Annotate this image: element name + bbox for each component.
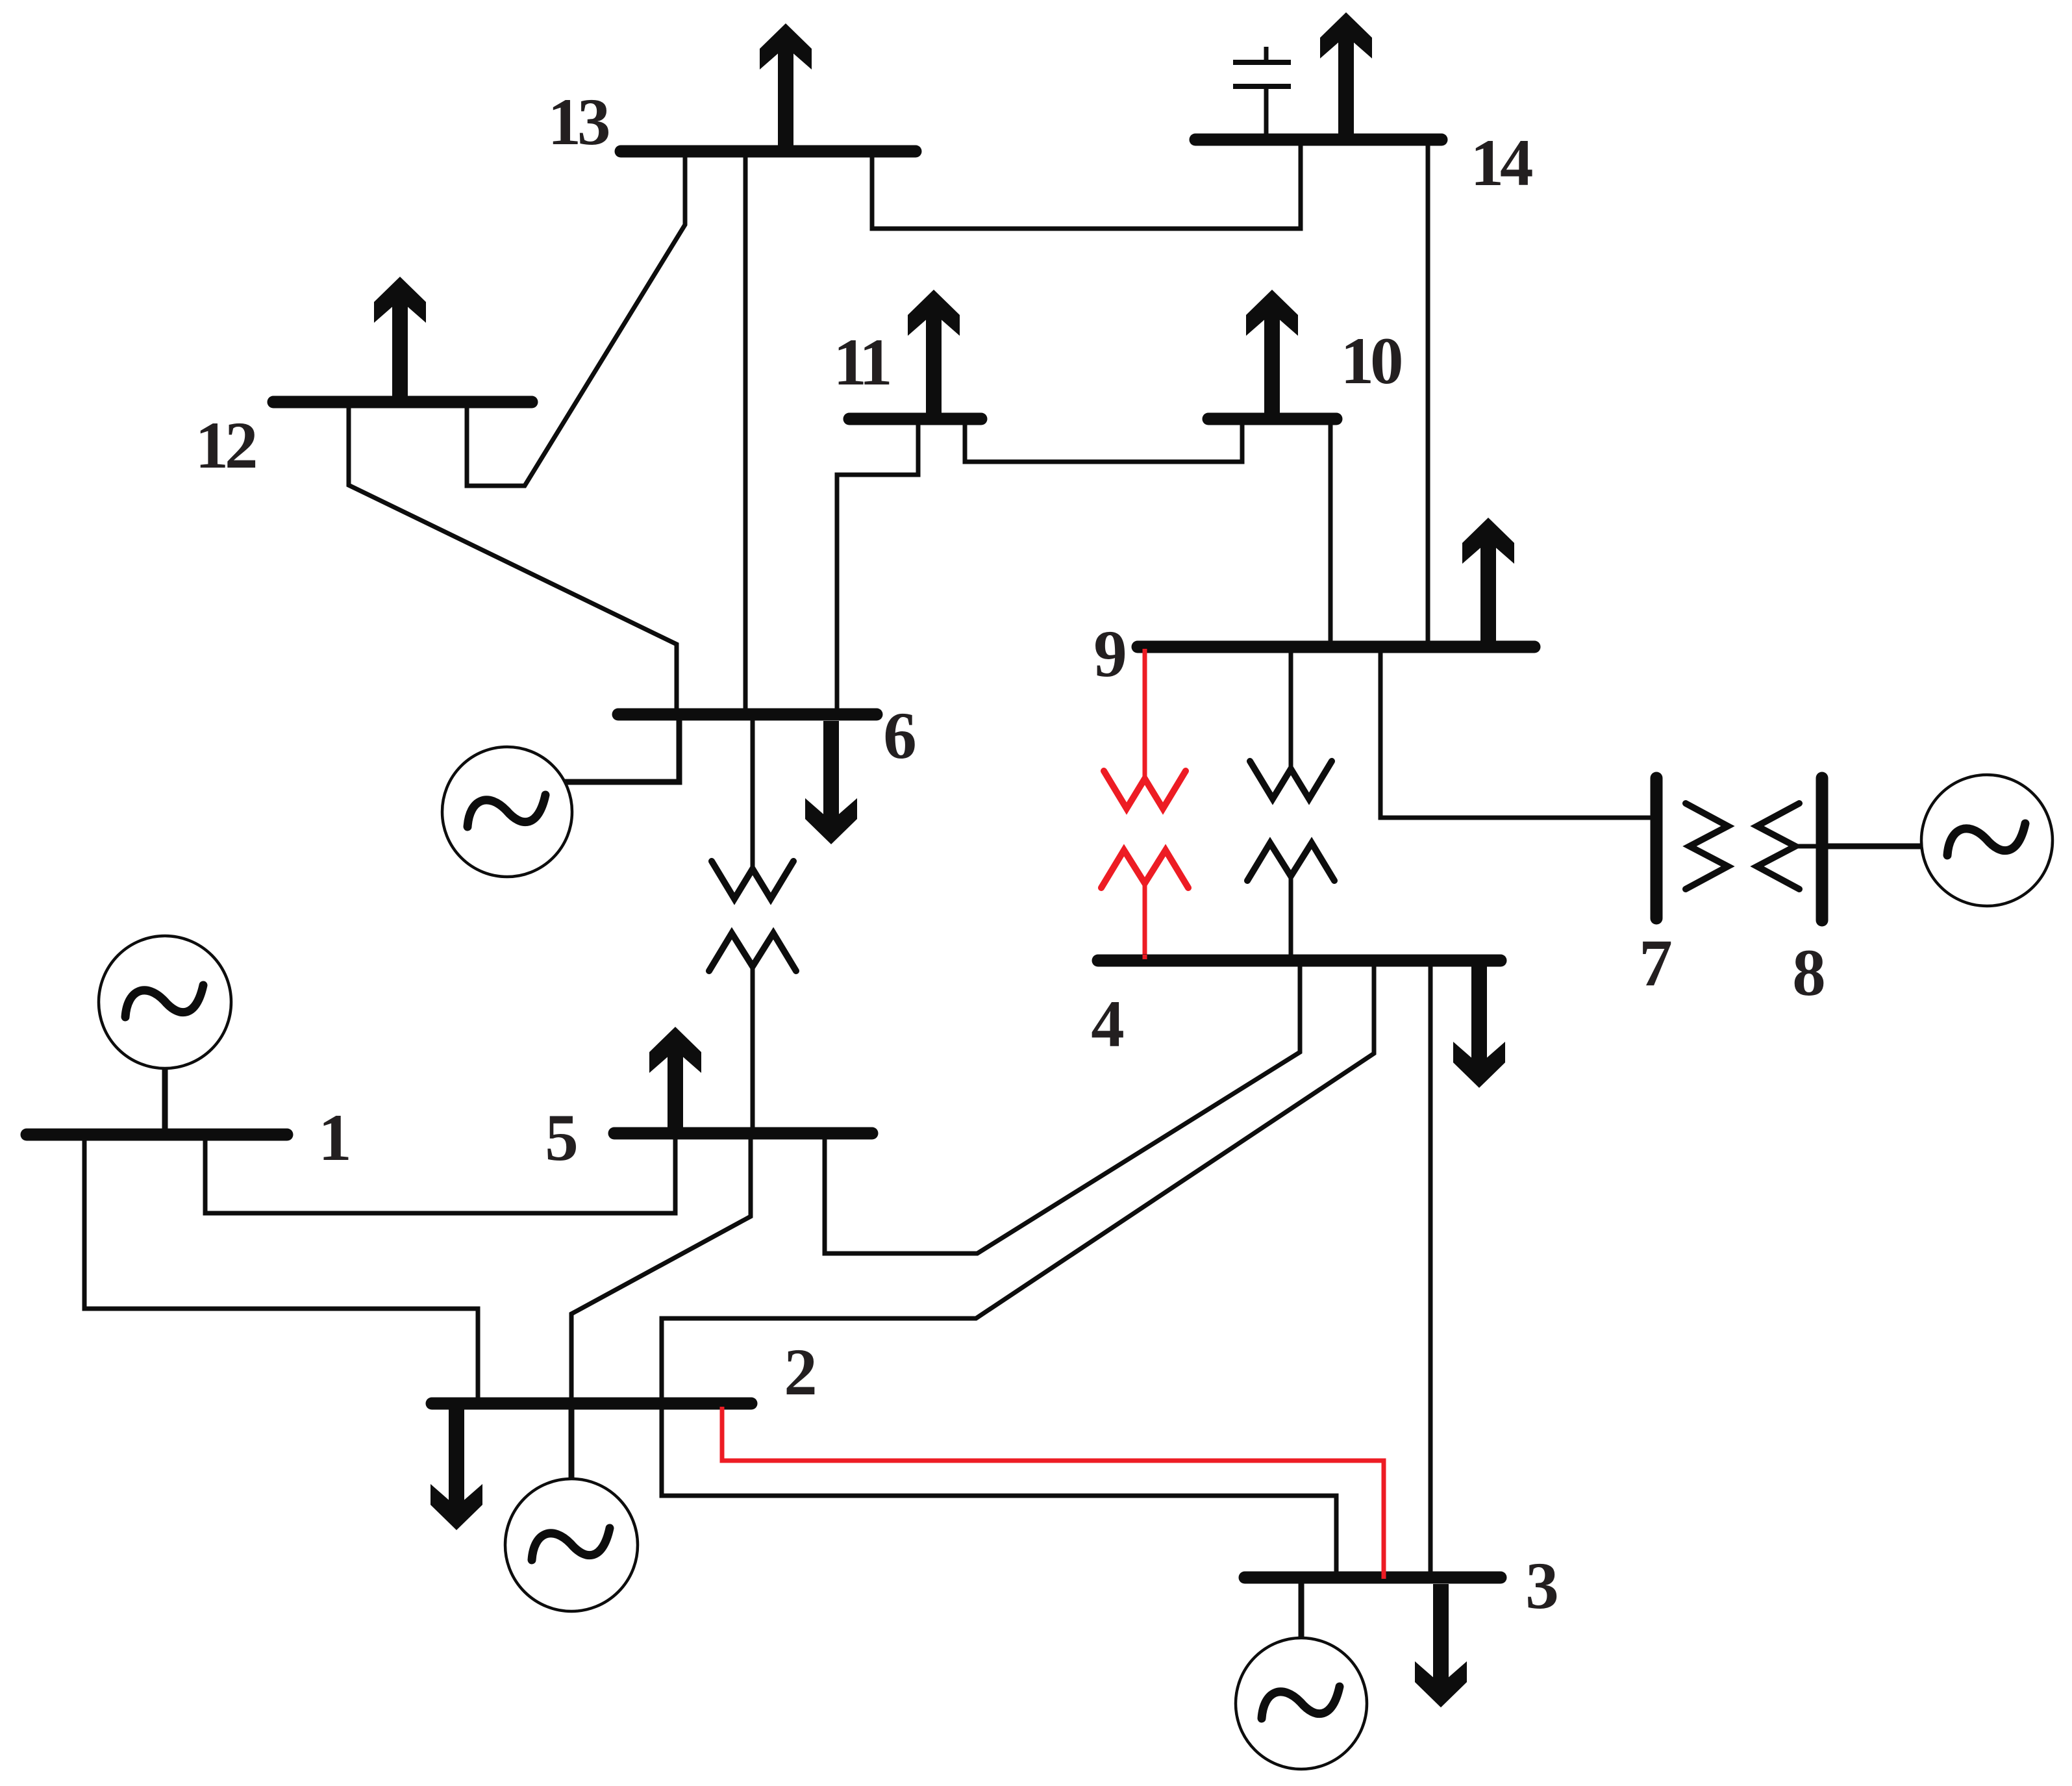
label bus 7 bbox=[1639, 926, 1673, 1000]
label bus 9 bbox=[1093, 617, 1127, 691]
wire line 2-4 bbox=[662, 961, 1374, 1403]
transformer T7-8 left winding bbox=[1686, 803, 1728, 889]
generator G8 lead bbox=[1822, 844, 1922, 849]
transformer T4-9 red lower winding bbox=[1101, 850, 1188, 957]
wire line 9-10 bbox=[1329, 419, 1333, 647]
label bus 2 bbox=[784, 1335, 818, 1409]
svg-text:10: 10 bbox=[1341, 324, 1402, 398]
bus 8 bbox=[1816, 778, 1829, 920]
svg-text:2: 2 bbox=[784, 1335, 818, 1409]
bus 1 bbox=[27, 1129, 287, 1141]
load arrow bus 10 bbox=[1246, 290, 1298, 413]
load arrow bus 9 bbox=[1462, 518, 1514, 641]
generator G8 bbox=[1921, 775, 2053, 906]
generator G2 bbox=[505, 1479, 638, 1611]
wire line 3-4 bbox=[1429, 961, 1433, 1578]
transformer T7-8 right winding bbox=[1757, 803, 1822, 889]
transformer T4-9 black upper winding bbox=[1250, 647, 1332, 799]
wire line 6-13 bbox=[743, 151, 748, 714]
label bus 11 bbox=[833, 325, 890, 399]
label bus 5 bbox=[545, 1101, 579, 1175]
transformer T4-9 red upper winding bbox=[1104, 649, 1186, 809]
svg-text:11: 11 bbox=[833, 325, 890, 399]
svg-text:12: 12 bbox=[195, 409, 256, 483]
svg-text:13: 13 bbox=[548, 85, 609, 159]
bus 11 bbox=[849, 413, 981, 425]
bus 10 bbox=[1208, 413, 1336, 425]
load arrow bus 2 bbox=[431, 1407, 482, 1530]
svg-text:3: 3 bbox=[1525, 1549, 1559, 1623]
bus 5 bbox=[614, 1127, 872, 1140]
svg-text:6: 6 bbox=[883, 699, 917, 773]
wire line 7-9 bbox=[1380, 647, 1656, 818]
bus 14 bbox=[1195, 134, 1442, 146]
wire line 13-14 bbox=[872, 140, 1301, 229]
bus 2 bbox=[432, 1398, 751, 1410]
load arrow bus 3 bbox=[1415, 1584, 1467, 1707]
generator G1 bbox=[99, 936, 231, 1068]
load arrow bus 6 bbox=[805, 721, 857, 844]
svg-text:9: 9 bbox=[1093, 617, 1127, 691]
generator G3 lead bbox=[1299, 1578, 1304, 1637]
svg-text:14: 14 bbox=[1471, 126, 1533, 200]
transformer T5-6 lower winding bbox=[709, 933, 796, 1133]
bus 4 bbox=[1098, 955, 1501, 967]
wire line 2-3 bbox=[662, 1403, 1336, 1578]
load arrow bus 13 bbox=[760, 23, 812, 147]
label bus 13 bbox=[548, 85, 609, 159]
red transformer tick on bus 4 bbox=[1143, 955, 1147, 959]
load arrow bus 5 bbox=[649, 1027, 701, 1127]
bus 12 bbox=[273, 396, 532, 409]
wire line 1-5 bbox=[205, 1133, 675, 1213]
wire line 2-3 red bbox=[722, 1407, 1384, 1579]
label bus 6 bbox=[883, 699, 917, 773]
transformer T5-6 upper winding bbox=[712, 714, 793, 899]
generator G2 lead bbox=[569, 1403, 575, 1479]
load arrow bus 4 bbox=[1453, 964, 1505, 1088]
wire line 6-12 bbox=[349, 402, 677, 714]
svg-text:5: 5 bbox=[545, 1101, 579, 1175]
wire line 1-2 bbox=[84, 1135, 478, 1403]
label bus 14 bbox=[1471, 126, 1533, 200]
label bus 10 bbox=[1341, 324, 1402, 398]
label bus 3 bbox=[1525, 1549, 1559, 1623]
label bus 12 bbox=[195, 409, 256, 483]
transformer T4-9 black lower winding bbox=[1247, 843, 1334, 961]
wire line 12-13 bbox=[467, 151, 685, 486]
generator G6 lead bbox=[558, 714, 679, 782]
generator G6 bbox=[442, 747, 572, 877]
wire line 6-11 bbox=[837, 419, 918, 714]
wire line 10-11 bbox=[965, 419, 1242, 462]
wire line 4-5 bbox=[825, 961, 1300, 1253]
red transformer tick on bus 9 bbox=[1143, 649, 1147, 654]
bus 6 bbox=[618, 709, 877, 721]
load arrow bus 11 bbox=[908, 290, 960, 413]
wire line 2-5 bbox=[571, 1133, 751, 1403]
load arrow bus 14 bbox=[1320, 12, 1372, 136]
wire line 9-14 bbox=[1426, 140, 1430, 647]
bus 9 bbox=[1138, 641, 1534, 653]
capacitor C14 bbox=[1233, 47, 1291, 134]
label bus 1 bbox=[318, 1101, 352, 1175]
generator G3 bbox=[1236, 1638, 1367, 1769]
load arrow bus 12 bbox=[374, 277, 426, 400]
label bus 4 bbox=[1091, 987, 1125, 1061]
bus 3 bbox=[1245, 1572, 1501, 1584]
bus 7 bbox=[1651, 778, 1663, 918]
svg-text:4: 4 bbox=[1091, 987, 1125, 1061]
svg-text:8: 8 bbox=[1792, 936, 1826, 1010]
bus 13 bbox=[621, 145, 916, 158]
label bus 8 bbox=[1792, 936, 1826, 1010]
svg-text:1: 1 bbox=[318, 1101, 352, 1175]
generator G1 lead bbox=[162, 1068, 168, 1135]
svg-text:7: 7 bbox=[1639, 926, 1673, 1000]
